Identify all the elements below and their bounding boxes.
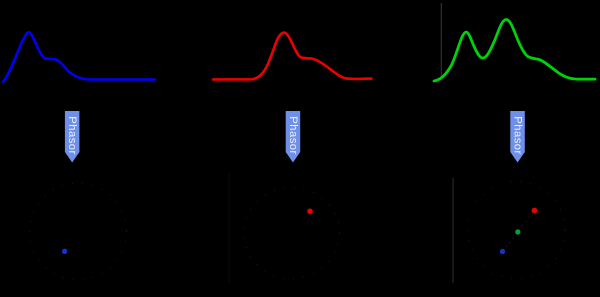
svg-text:Phasor: Phasor: [512, 116, 524, 155]
svg-text:Phasor: Phasor: [66, 116, 78, 155]
svg-text:Phasor: Phasor: [287, 116, 299, 155]
